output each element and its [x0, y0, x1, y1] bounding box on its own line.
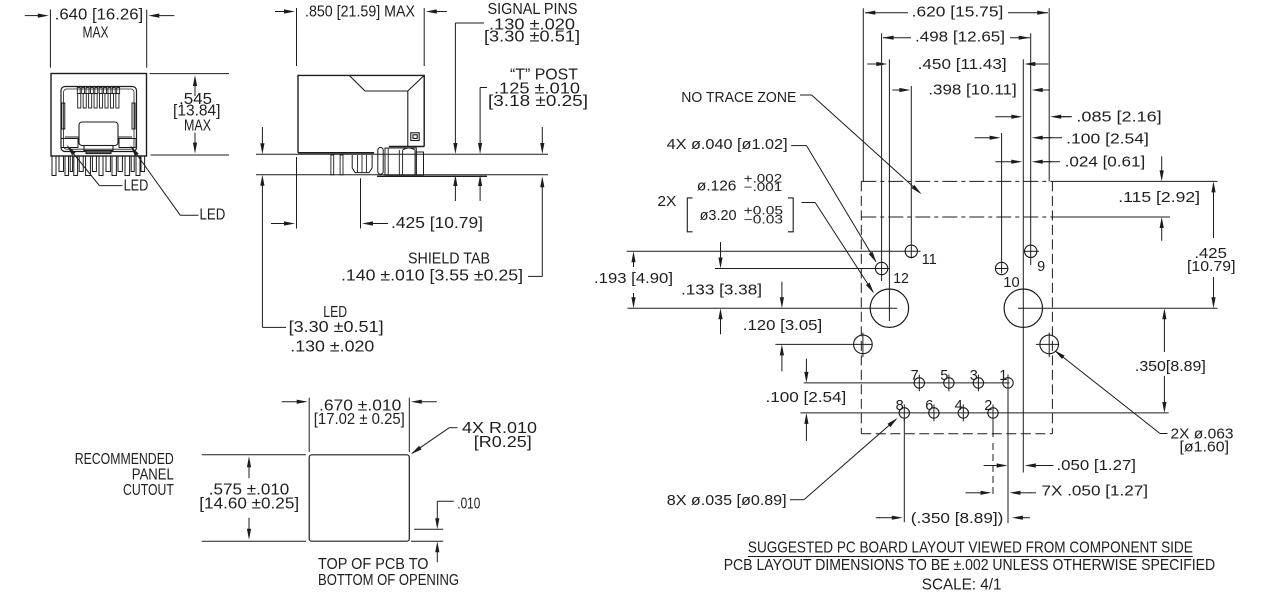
svg-text:ø3.20: ø3.20 [700, 207, 737, 224]
svg-text:SIGNAL PINS: SIGNAL PINS [488, 1, 578, 18]
svg-text:.850 [21.59] MAX: .850 [21.59] MAX [305, 4, 415, 21]
svg-text:.130 ±.020: .130 ±.020 [290, 339, 374, 356]
svg-text:4: 4 [955, 398, 963, 414]
svg-text:LED: LED [124, 178, 149, 195]
svg-text:.024 [0.61]: .024 [0.61] [1065, 153, 1146, 170]
svg-text:.640 [16.26]: .640 [16.26] [55, 6, 144, 23]
svg-text:SCALE: 4/1: SCALE: 4/1 [922, 577, 1002, 594]
svg-text:8: 8 [896, 398, 904, 414]
svg-text:.398 [10.11]: .398 [10.11] [928, 82, 1016, 99]
svg-text:NO TRACE ZONE: NO TRACE ZONE [681, 89, 796, 106]
svg-text:PCB LAYOUT DIMENSIONS TO B: PCB LAYOUT DIMENSIONS TO BE ±.002 UNLESS… [724, 557, 1215, 574]
svg-text:.450 [11.43]: .450 [11.43] [918, 56, 1007, 73]
svg-text:12: 12 [893, 271, 909, 287]
svg-text:[14.60 ±0.25]: [14.60 ±0.25] [199, 496, 299, 513]
svg-text:6: 6 [925, 398, 933, 414]
svg-text:9: 9 [1037, 259, 1045, 275]
svg-text:.050 [1.27]: .050 [1.27] [1057, 457, 1137, 474]
svg-text:.425 [10.79]: .425 [10.79] [391, 215, 483, 232]
svg-text:[ø1.60]: [ø1.60] [1180, 438, 1230, 455]
svg-text:.350[8.89]: .350[8.89] [1135, 358, 1206, 375]
svg-text:.140 ±.010 [3.55 ±0.25]: .140 ±.010 [3.55 ±0.25] [341, 268, 523, 285]
svg-text:.498 [12.65]: .498 [12.65] [915, 29, 1005, 46]
svg-text:SHIELD TAB: SHIELD TAB [408, 251, 490, 268]
svg-text:.133 [3.38]: .133 [3.38] [681, 282, 762, 299]
svg-text:−0.03: −0.03 [744, 215, 783, 227]
svg-text:SUGGESTED PC BOARD LAYOUT: SUGGESTED PC BOARD LAYOUT VIEWED FROM CO… [748, 539, 1193, 556]
svg-text:MAX: MAX [184, 118, 211, 135]
svg-text:2: 2 [984, 398, 992, 414]
svg-text:.085 [2.16]: .085 [2.16] [1076, 109, 1161, 126]
svg-text:CUTOUT: CUTOUT [123, 482, 174, 499]
svg-text:1: 1 [999, 368, 1007, 384]
svg-text:.100 [2.54]: .100 [2.54] [766, 389, 847, 406]
svg-text:MAX: MAX [83, 24, 109, 41]
svg-text:.010: .010 [457, 495, 480, 512]
svg-text:5: 5 [940, 368, 948, 384]
svg-text:[3.30 ±0.51]: [3.30 ±0.51] [289, 319, 384, 336]
svg-text:10: 10 [1003, 275, 1019, 291]
svg-text:8X ø.035 [ø0.89]: 8X ø.035 [ø0.89] [667, 492, 787, 509]
svg-text:11: 11 [922, 252, 937, 268]
svg-text:3: 3 [970, 368, 978, 384]
svg-text:.115 [2.92]: .115 [2.92] [1118, 189, 1200, 206]
svg-text:[10.79]: [10.79] [1187, 258, 1236, 275]
svg-text:TOP OF PCB TO: TOP OF PCB TO [318, 556, 429, 573]
svg-text:[3.30 ±0.51]: [3.30 ±0.51] [484, 29, 580, 46]
svg-text:.620 [15.75]: .620 [15.75] [912, 4, 1004, 21]
svg-text:7: 7 [911, 368, 919, 384]
svg-text:2X: 2X [657, 193, 676, 210]
svg-text:(.350 [8.89]): (.350 [8.89]) [911, 510, 1004, 527]
svg-text:.120 [3.05]: .120 [3.05] [743, 317, 822, 334]
svg-text:4X ø.040 [ø1.02]: 4X ø.040 [ø1.02] [667, 136, 788, 153]
svg-text:.100 [2.54]: .100 [2.54] [1066, 130, 1149, 147]
svg-text:.193 [4.90]: .193 [4.90] [594, 270, 673, 287]
svg-text:LED: LED [200, 207, 226, 224]
svg-text:−.001: −.001 [744, 182, 783, 194]
svg-text:7X .050 [1.27]: 7X .050 [1.27] [1042, 482, 1149, 499]
svg-text:[R0.25]: [R0.25] [474, 434, 532, 451]
svg-text:BOTTOM OF OPENING: BOTTOM OF OPENING [318, 572, 459, 589]
svg-text:ø.126: ø.126 [697, 178, 737, 195]
svg-text:[3.18 ±0.25]: [3.18 ±0.25] [488, 93, 588, 110]
svg-text:[17.02 ± 0.25]: [17.02 ± 0.25] [314, 411, 405, 428]
